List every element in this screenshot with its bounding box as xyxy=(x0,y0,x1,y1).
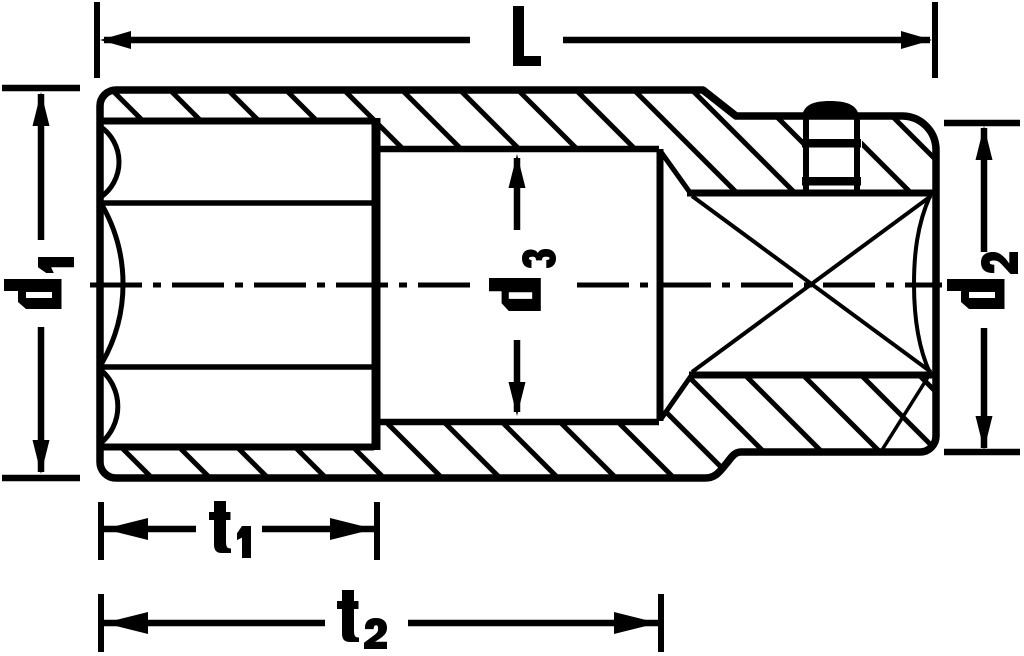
dimension d3 line upper xyxy=(514,158,521,230)
label d1 subscript 1 xyxy=(38,257,74,273)
d3 bore top edge xyxy=(376,146,659,153)
dimension t2 arrowhead left xyxy=(104,612,148,634)
detent pin bar lower xyxy=(802,177,861,186)
d3 bore bottom edge xyxy=(376,419,659,426)
dimension t1 line right part xyxy=(262,526,374,533)
dimension d1 line lower xyxy=(38,327,45,472)
square recess X diagonal 2 xyxy=(692,196,931,372)
dimension L extension line right xyxy=(932,2,938,78)
centerline xyxy=(90,283,942,288)
detent pin dome xyxy=(802,101,859,116)
label d3 letter d xyxy=(489,278,541,311)
dimension t1 arrowhead left xyxy=(104,518,148,540)
dimension d1 tick top xyxy=(2,85,80,92)
dimension t2 line right part xyxy=(408,620,658,627)
label d3 subscript 3 xyxy=(522,249,556,268)
label d2 letter d xyxy=(947,279,1005,309)
dimension t2 line left part xyxy=(104,620,325,627)
detent pin bar upper xyxy=(802,139,861,148)
dimension d2 arrowhead down xyxy=(976,416,993,450)
drive end corner line bottom-right xyxy=(882,374,930,450)
dimension t1 arrowhead right xyxy=(330,518,374,540)
hex bore end wall xyxy=(372,118,381,450)
socket body outline xyxy=(100,90,936,478)
d3 bore end wall xyxy=(657,149,664,421)
label t1 letter t xyxy=(209,501,231,553)
dimension d2 tick bottom xyxy=(944,449,1020,456)
square recess X diagonal 1 xyxy=(692,196,931,372)
dimension d1 arrowhead down xyxy=(33,440,50,474)
dimension L arrowhead left xyxy=(100,31,131,49)
dimension t1 extension line right xyxy=(374,502,380,560)
chamfer cone top xyxy=(661,152,691,194)
label t2 letter t xyxy=(337,590,359,642)
dimension d3 line lower xyxy=(514,340,521,412)
dimension d3 arrowhead up xyxy=(509,154,526,188)
dimension d2 tick top xyxy=(944,120,1020,127)
hex bore bottom edge xyxy=(100,444,374,451)
square drive recess top edge xyxy=(687,190,933,197)
dimension t2 extension line right xyxy=(658,594,664,652)
dimension d3 arrowhead down xyxy=(509,382,526,416)
dimension d1 tick bottom xyxy=(2,475,80,482)
dimension d2 line lower xyxy=(981,328,988,448)
label t2 subscript 2 xyxy=(364,618,387,649)
dimension d1 line upper xyxy=(38,94,45,240)
label t1 subscript 1 xyxy=(237,526,251,558)
dimension L extension line left xyxy=(94,2,100,78)
detent pin left wall xyxy=(803,115,809,192)
label d1 letter d xyxy=(4,279,62,309)
dimension L line right part xyxy=(563,37,930,44)
dimension t2 extension line left xyxy=(98,594,104,652)
detent pin hole white xyxy=(803,98,862,191)
hex flat line upper xyxy=(103,200,372,206)
dimension t1 line left part xyxy=(104,526,196,533)
hex corner arc middle xyxy=(102,205,123,363)
square recess far-side arc xyxy=(914,196,930,373)
label L xyxy=(513,6,541,66)
dimension d2 arrowhead up xyxy=(976,126,993,160)
label d2 subscript 2 xyxy=(981,252,1018,274)
hex corner arc lower xyxy=(101,370,118,443)
chamfer cone bottom xyxy=(661,376,691,419)
dimension t2 arrowhead right xyxy=(614,612,658,634)
dimension L line left part xyxy=(104,37,470,44)
dimension d2 line upper xyxy=(981,128,988,252)
dimension t1 extension line left xyxy=(98,502,104,560)
hex flat line lower xyxy=(103,364,372,370)
detent pin right wall xyxy=(854,115,860,192)
square drive recess bottom edge xyxy=(689,372,933,379)
dimension d1 arrowhead up xyxy=(33,92,50,126)
dimension L arrowhead right xyxy=(901,31,932,49)
hex corner arc upper xyxy=(101,127,119,197)
hex bore top edge xyxy=(100,118,374,125)
